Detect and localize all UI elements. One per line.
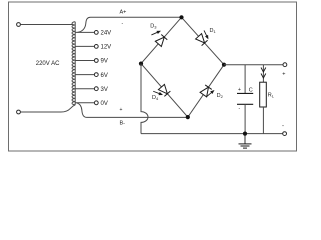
terminal output plus: [283, 63, 287, 67]
wire A+ rail from 24V tap to bridge top: [78, 17, 182, 32]
svg-text:A+: A+: [120, 10, 127, 16]
arrow current D2: [206, 89, 216, 98]
wire tap 0V: [75, 102, 94, 104]
svg-text:B-: B-: [120, 121, 126, 127]
wire AC top-left to transformer: [21, 24, 73, 26]
diode D2: [200, 85, 212, 97]
svg-text:D1: D1: [210, 28, 217, 34]
svg-text:+: +: [120, 107, 123, 113]
transformer T1 winding: [72, 22, 75, 105]
svg-text:6V: 6V: [101, 73, 108, 79]
node L junction dot: [139, 62, 143, 66]
node B junction dot: [186, 115, 190, 119]
node capacitor-ground junction dot: [243, 132, 247, 136]
wire bridge edge L-B: [141, 64, 188, 118]
wire AC bottom-left to transformer: [21, 105, 76, 112]
wire tap 12V: [75, 45, 94, 47]
wire capacitor branch bottom: [244, 104, 246, 133]
terminal 12V: [94, 45, 98, 49]
svg-text:-: -: [282, 124, 284, 130]
terminal 0V: [94, 101, 98, 105]
svg-text:D3: D3: [150, 23, 157, 29]
svg-text:D4: D4: [152, 95, 159, 101]
svg-text:3V: 3V: [101, 87, 108, 93]
svg-text:220V AC: 220V AC: [36, 61, 60, 67]
svg-text:0V: 0V: [101, 101, 108, 107]
svg-text:D2: D2: [217, 93, 224, 99]
svg-text:+: +: [238, 87, 241, 93]
arrow current into RL (double chevron): [261, 68, 266, 79]
terminal 9V: [94, 59, 98, 63]
svg-text:12V: 12V: [101, 45, 112, 51]
wire tap 6V: [75, 74, 94, 76]
wire bridge edge B-R: [188, 65, 224, 117]
svg-text:-: -: [239, 106, 241, 112]
capacitor C plate top: [237, 92, 253, 94]
arrow current D1: [202, 30, 209, 40]
ground: [239, 134, 252, 149]
terminal AC bottom-left: [17, 110, 21, 114]
wire bridge edge T-R: [182, 17, 225, 64]
node R junction dot: [222, 63, 226, 67]
wire tap 24V: [75, 31, 94, 33]
svg-text:-: -: [122, 21, 124, 27]
wire top rail R to plus terminal: [224, 64, 283, 66]
terminal 6V: [94, 73, 98, 77]
arrow current D3: [151, 29, 162, 36]
svg-text:9V: 9V: [101, 59, 108, 65]
wire RL branch bottom: [262, 107, 264, 134]
terminal AC top-left: [17, 23, 21, 27]
wire bridge edge L-T: [141, 17, 182, 63]
wire capacitor branch top: [244, 65, 246, 94]
svg-text:RL: RL: [268, 93, 275, 99]
terminal output minus: [283, 132, 287, 136]
resistor RL box: [260, 82, 267, 107]
wire L node down with hop over B- rail: [141, 64, 148, 134]
diode D1: [196, 34, 208, 46]
diode D3: [155, 34, 167, 46]
wire bottom rail: [141, 133, 283, 135]
terminal 3V: [94, 87, 98, 91]
diode D4: [158, 84, 170, 96]
svg-text:C: C: [249, 87, 253, 93]
wire RL branch top: [262, 65, 264, 83]
wire B- rail from 0V tap to bridge bottom: [77, 103, 188, 118]
wire tap 3V: [75, 88, 94, 90]
svg-text:24V: 24V: [101, 31, 112, 37]
svg-text:+: +: [282, 72, 285, 78]
border frame: [9, 2, 297, 151]
wire tap 9V: [75, 60, 94, 62]
arrow current D4: [153, 90, 164, 97]
node T junction dot: [179, 15, 183, 19]
terminal 24V: [94, 31, 98, 35]
capacitor C plate bottom: [237, 103, 253, 105]
